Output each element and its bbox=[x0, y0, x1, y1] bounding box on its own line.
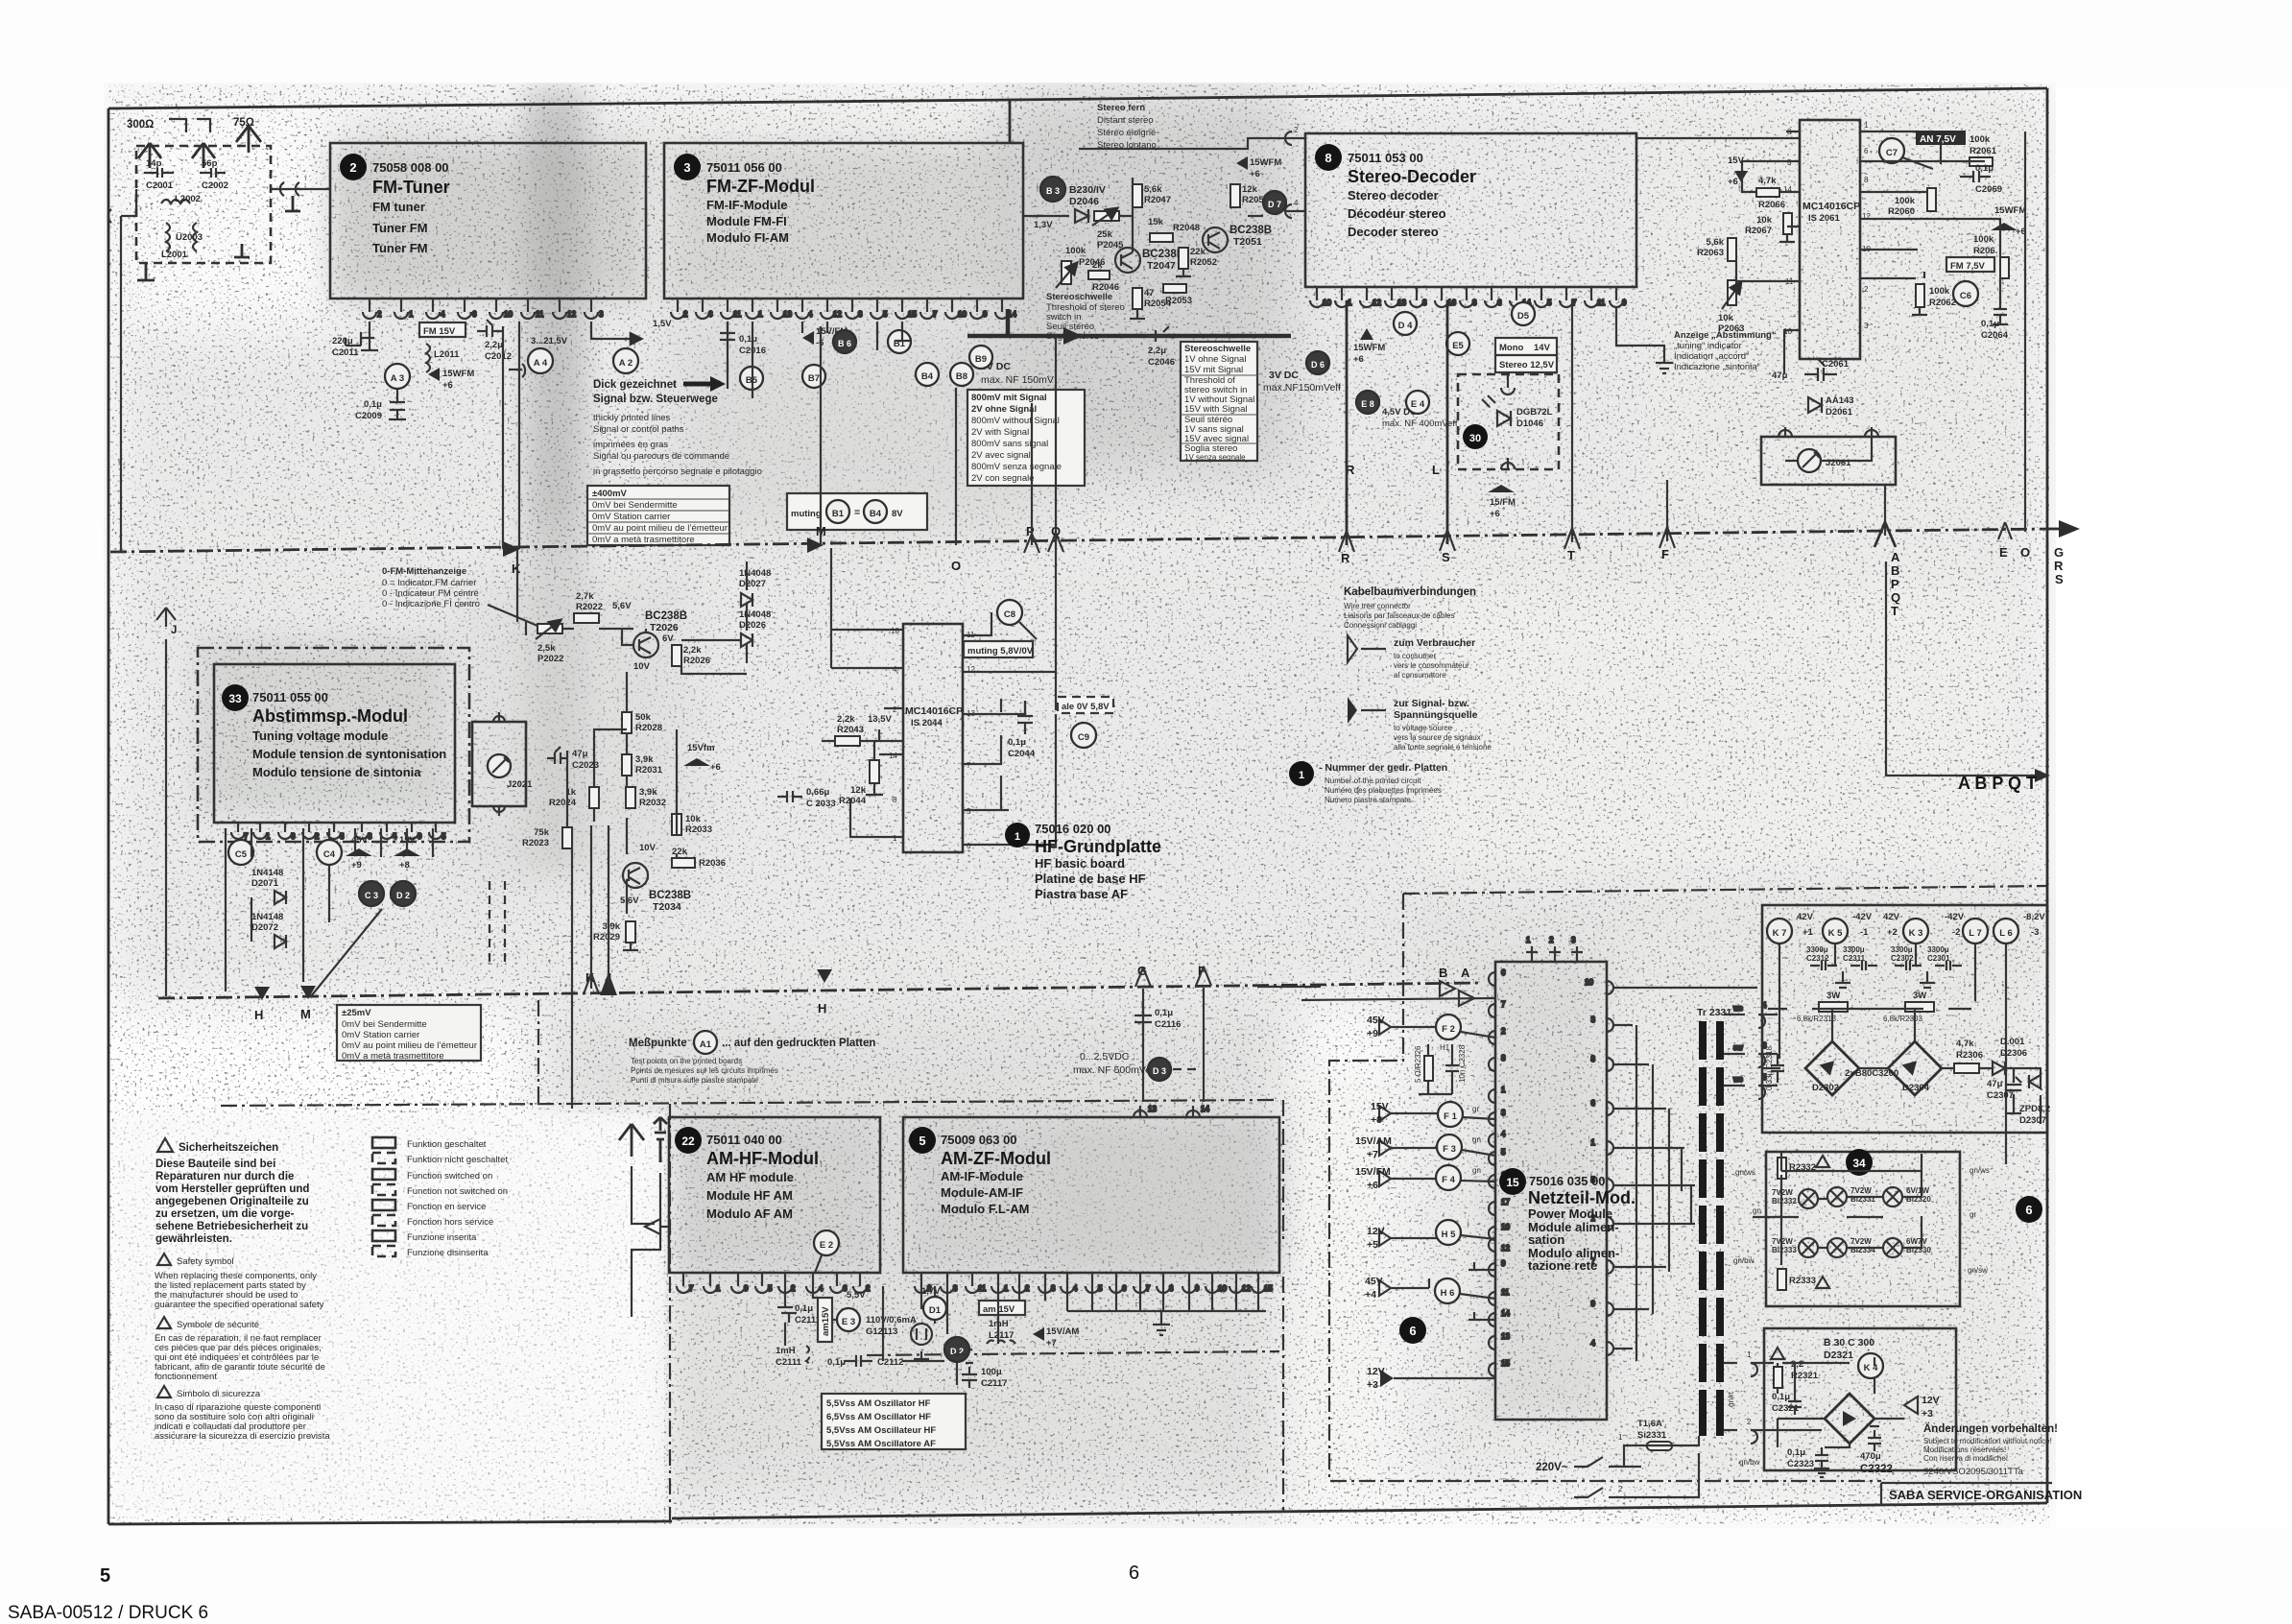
svg-text:J2061: J2061 bbox=[1826, 458, 1851, 468]
svg-text:FM-Tuner: FM-Tuner bbox=[372, 178, 450, 197]
bus1 arrow Q bbox=[1048, 533, 1063, 552]
dash-dot power region left boundary bbox=[1329, 894, 1881, 1481]
svg-text:2: 2 bbox=[1294, 126, 1299, 134]
pin 9 bbox=[1610, 287, 1623, 307]
svg-text:75009 063 00: 75009 063 00 bbox=[941, 1133, 1017, 1147]
legend box dashed 4 bbox=[372, 1246, 395, 1256]
svg-text:6: 6 bbox=[291, 832, 296, 841]
svg-text:R: R bbox=[2054, 559, 2064, 573]
test point D2 am bbox=[944, 1337, 969, 1362]
FM tuner pin row bbox=[363, 299, 604, 319]
svg-text:100k: 100k bbox=[1065, 246, 1086, 256]
resistor R2024 bbox=[549, 787, 599, 808]
legend box solid 2 bbox=[372, 1169, 395, 1180]
wire: IC2 right connections bbox=[963, 612, 1056, 845]
capacitor C2012 electrolytic bbox=[477, 320, 512, 362]
svg-text:3...21,5V: 3...21,5V bbox=[531, 336, 568, 346]
transformer U2003 bbox=[161, 223, 203, 260]
flag 45V +9 bbox=[346, 835, 372, 871]
pin 7 bbox=[1134, 1273, 1147, 1293]
HF Grundplatte label bbox=[1005, 822, 1161, 901]
svg-text:T2026: T2026 bbox=[650, 622, 679, 633]
wire: meter connectors bbox=[1779, 427, 1878, 461]
wire: lamp wiring bbox=[1753, 1152, 1922, 1265]
signal level table box bbox=[967, 390, 1085, 486]
svg-text:H: H bbox=[254, 1008, 263, 1022]
svg-text:2,2μ: 2,2μ bbox=[1148, 346, 1166, 356]
current source D1 circle bbox=[923, 1297, 946, 1320]
svg-text:Test points on the printed boa: Test points on the printed boards bbox=[631, 1057, 742, 1065]
svg-text:7: 7 bbox=[933, 310, 938, 319]
dash-dot power region boundary bbox=[1403, 886, 2047, 894]
svg-text:BC238B: BC238B bbox=[645, 610, 687, 622]
transformer bottom pin 2 bbox=[1724, 1430, 1766, 1444]
wire: ground stubs near pins 9 11 bbox=[1468, 1262, 1495, 1320]
svg-text:al consumatore: al consumatore bbox=[1394, 671, 1446, 680]
svg-text:5,5V: 5,5V bbox=[847, 1290, 866, 1301]
module box AM-HF-Modul bbox=[669, 1117, 880, 1273]
boxed label FM 15V bbox=[419, 322, 466, 337]
pin 4 left side bbox=[1285, 204, 1305, 218]
svg-text:A 2: A 2 bbox=[619, 358, 633, 369]
inductor L2011 bbox=[426, 344, 460, 372]
pin 6 bbox=[696, 299, 709, 319]
svg-text:Indication „accord“: Indication „accord“ bbox=[1674, 351, 1749, 362]
svg-text:5,5V​ss AM Oszillator HF: 5,5V​ss AM Oszillator HF bbox=[826, 1398, 931, 1409]
svg-text:220μ: 220μ bbox=[332, 336, 353, 346]
svg-text:Sicherheitszeichen: Sicherheitszeichen bbox=[179, 1142, 278, 1154]
svg-text:H: H bbox=[818, 1001, 826, 1015]
svg-text:Function not switched on: Function not switched on bbox=[407, 1186, 508, 1197]
bus1 arrow P bbox=[1024, 534, 1039, 553]
svg-text:6: 6 bbox=[1409, 1324, 1416, 1338]
svg-text:0mV au point milieu de l’émett: 0mV au point milieu de l’émetteur bbox=[592, 523, 728, 534]
capacitor C2033 bbox=[777, 787, 836, 809]
svg-text:F 3: F 3 bbox=[1443, 1144, 1456, 1155]
AM antenna 1 bbox=[619, 1124, 644, 1157]
svg-text:9: 9 bbox=[1591, 1300, 1596, 1308]
svg-text:1N4148: 1N4148 bbox=[251, 912, 283, 922]
svg-text:2,7k: 2,7k bbox=[576, 591, 594, 602]
svg-text:5: 5 bbox=[768, 1284, 773, 1293]
pin 2b bbox=[853, 1273, 867, 1293]
test point E3 bbox=[837, 1308, 860, 1331]
svg-text:Q: Q bbox=[1891, 590, 1900, 605]
wire: am zf pins down to dashdot bbox=[921, 1286, 1266, 1334]
pin 1 bbox=[253, 823, 267, 839]
svg-text:+6: +6 bbox=[1250, 169, 1260, 179]
capacitor pair 2 bbox=[1895, 961, 1962, 970]
inductor C2111 dashed bbox=[776, 1346, 809, 1369]
svg-text:H 5: H 5 bbox=[1442, 1230, 1457, 1240]
svg-text:0 - Indicateur FM centre: 0 - Indicateur FM centre bbox=[382, 588, 479, 599]
module box Stereo-Decoder bbox=[1305, 133, 1636, 287]
wire: vertical O bbox=[955, 388, 957, 545]
svg-text:Signal ou parcours de commande: Signal ou parcours de commande bbox=[593, 451, 729, 462]
svg-text:D2071: D2071 bbox=[251, 878, 279, 889]
pin 7 bbox=[1560, 287, 1573, 307]
wire: vertical Q below bus bbox=[1055, 545, 1057, 710]
wire: R2326 C2328 links bbox=[1419, 1044, 1452, 1094]
svg-text:angegebenen Originalteile zu: angegebenen Originalteile zu bbox=[155, 1196, 309, 1207]
svg-text:Fonction en service: Fonction en service bbox=[407, 1202, 486, 1212]
svg-text:Reparaturen nur durch die: Reparaturen nur durch die bbox=[155, 1171, 294, 1182]
svg-text:3,9k: 3,9k bbox=[639, 787, 657, 798]
svg-text:K 4: K 4 bbox=[1864, 1363, 1879, 1373]
svg-text:T2047: T2047 bbox=[1147, 260, 1176, 272]
svg-text:S: S bbox=[1442, 550, 1450, 564]
wire: bridge connections bbox=[1763, 1009, 1971, 1068]
svg-text:ZPD8,2: ZPD8,2 bbox=[2019, 1104, 2050, 1114]
svg-text:gn: gn bbox=[1472, 1135, 1481, 1144]
svg-text:H 6: H 6 bbox=[1441, 1288, 1455, 1299]
dashed label box ale 0V 5,8V bbox=[1058, 697, 1113, 713]
svg-text:sehene Betriebesicherheit zu: sehene Betriebesicherheit zu bbox=[155, 1221, 308, 1232]
module box AM-ZF-Modul bbox=[903, 1117, 1279, 1273]
svg-text:imprimées en gras: imprimées en gras bbox=[593, 440, 668, 450]
boxed label am 15V bbox=[979, 1301, 1025, 1315]
wire: thick signal line with arrow bbox=[967, 334, 1063, 339]
svg-text:thickly printed lines: thickly printed lines bbox=[593, 413, 671, 423]
svg-text:Points de mesures sur les circ: Points de mesures sur les circuits impri… bbox=[631, 1066, 778, 1075]
svg-text:15: 15 bbox=[908, 310, 917, 319]
svg-text:6W7V: 6W7V bbox=[1906, 1237, 1927, 1246]
pin 3b bbox=[1039, 1273, 1052, 1293]
bus1 connector R bbox=[1339, 531, 1354, 552]
pin 10 bbox=[1310, 287, 1324, 307]
svg-text:3,9k: 3,9k bbox=[635, 754, 654, 765]
svg-text:R2062: R2062 bbox=[1929, 298, 1956, 308]
svg-text:-42V: -42V bbox=[1852, 912, 1873, 922]
svg-text:10n C2328: 10n C2328 bbox=[1458, 1044, 1467, 1083]
svg-text:T1,6A: T1,6A bbox=[1637, 1419, 1662, 1429]
svg-text:0mV a metà trasmettitore: 0mV a metà trasmettitore bbox=[592, 535, 695, 545]
svg-text:T: T bbox=[1567, 548, 1575, 562]
svg-text:Funktion nicht geschaltet: Funktion nicht geschaltet bbox=[407, 1155, 508, 1165]
svg-text:C2012: C2012 bbox=[485, 351, 512, 362]
resistor R2066 bbox=[1756, 176, 1785, 210]
svg-text:Funzione disinserita: Funzione disinserita bbox=[407, 1248, 489, 1258]
resistor R2044b bbox=[1088, 260, 1119, 293]
svg-text:6: 6 bbox=[1497, 299, 1502, 307]
svg-text:C5: C5 bbox=[235, 849, 248, 860]
capacitor C2321 bbox=[1772, 1392, 1802, 1415]
svg-text:2,5k: 2,5k bbox=[537, 643, 556, 654]
module number circle 15 bbox=[1499, 1168, 1526, 1195]
svg-text:15V/AM: 15V/AM bbox=[1046, 1326, 1079, 1337]
wire: vertical P bbox=[1031, 403, 1033, 545]
wire: lamp box connectors bbox=[1501, 374, 1515, 469]
warning triangle 1 bbox=[157, 1138, 173, 1152]
pin 6 bbox=[458, 299, 471, 319]
pin 4 bbox=[426, 299, 440, 319]
svg-text:R: R bbox=[1341, 551, 1350, 565]
pin 2 bbox=[915, 1273, 928, 1293]
svg-text:SABA-00512 / DRUCK 6: SABA-00512 / DRUCK 6 bbox=[8, 1603, 208, 1623]
svg-text:5: 5 bbox=[1547, 299, 1552, 307]
pin 5 bbox=[429, 823, 442, 839]
wire: F vertical bbox=[1203, 988, 1205, 1102]
svg-text:16: 16 bbox=[1447, 299, 1456, 307]
pin 8 bbox=[1157, 1273, 1170, 1293]
svg-text:800mV sans signal: 800mV sans signal bbox=[971, 439, 1048, 449]
test point H5 bbox=[1436, 1220, 1461, 1245]
svg-text:2: 2 bbox=[866, 1284, 871, 1293]
module number circle 33 bbox=[222, 684, 249, 711]
transistor T2026 bbox=[633, 610, 687, 657]
pin 13 bbox=[771, 299, 784, 319]
inductor L2002 bbox=[161, 194, 201, 204]
wire: R2043 to IC2 bbox=[822, 729, 903, 741]
svg-text:5: 5 bbox=[883, 310, 888, 319]
label G12113 bbox=[866, 1315, 917, 1337]
lamp Bl2334 bbox=[1827, 1237, 1875, 1257]
svg-text:B9: B9 bbox=[975, 354, 987, 365]
pin 7 bbox=[677, 1273, 690, 1293]
svg-text:„tuning“ indicator: „tuning“ indicator bbox=[1674, 341, 1742, 351]
pin 10 bbox=[945, 299, 959, 319]
connector arrow 15V +8 bbox=[1371, 1101, 1414, 1126]
wire: right chain links bbox=[1979, 1068, 2041, 1164]
svg-text:+6: +6 bbox=[1353, 354, 1364, 365]
resistor R2060 bbox=[1888, 188, 1936, 217]
capacitor C2016 bbox=[720, 322, 766, 372]
pin 1 bbox=[746, 299, 759, 319]
svg-text:Module-AM-IF: Module-AM-IF bbox=[941, 1185, 1023, 1200]
connector symbols on antenna wire bbox=[280, 182, 299, 196]
svg-text:8: 8 bbox=[340, 832, 345, 841]
svg-text:10: 10 bbox=[1501, 1223, 1510, 1231]
wire: outer frame left border bbox=[107, 108, 110, 1524]
svg-text:12: 12 bbox=[1373, 299, 1381, 307]
wire: D7 input bbox=[1248, 211, 1292, 216]
svg-text:15Vfm: 15Vfm bbox=[687, 743, 715, 753]
pin 2 bbox=[778, 1273, 792, 1293]
svg-text:O: O bbox=[951, 559, 961, 573]
svg-text:11: 11 bbox=[1501, 1288, 1510, 1297]
svg-text:0,1μ: 0,1μ bbox=[1787, 1447, 1805, 1458]
text Anzeige Abstimmung bbox=[1674, 330, 1777, 372]
wire: G vertical bbox=[1142, 989, 1144, 1102]
fuse Si2331 bbox=[1641, 1442, 1678, 1450]
resistor R2063 bbox=[1697, 237, 1736, 261]
svg-text:10: 10 bbox=[958, 310, 967, 319]
svg-text:B: B bbox=[1891, 563, 1899, 578]
svg-text:6V: 6V bbox=[662, 633, 674, 644]
svg-text:7V2W: 7V2W bbox=[1772, 1188, 1793, 1197]
svg-text:3: 3 bbox=[1591, 1015, 1596, 1024]
wire: C8 pointer bbox=[1019, 622, 1037, 639]
wire: antenna input arrow bbox=[645, 1219, 670, 1234]
svg-text:13: 13 bbox=[1501, 1332, 1510, 1341]
resistor R2033 bbox=[672, 814, 712, 835]
svg-text:12k: 12k bbox=[850, 785, 867, 796]
svg-text:10: 10 bbox=[1218, 1284, 1227, 1293]
svg-text:1,3V: 1,3V bbox=[1034, 220, 1053, 230]
wire: T2026 connections bbox=[562, 629, 646, 645]
svg-text:Tuner FM: Tuner FM bbox=[372, 241, 428, 255]
svg-text:R2047: R2047 bbox=[1144, 195, 1171, 205]
svg-text:800mV senza segnale: 800mV senza segnale bbox=[971, 462, 1062, 472]
resistor R2303 3W bbox=[1883, 991, 1934, 1023]
warning triangle lamp2 bbox=[1816, 1277, 1829, 1288]
svg-text:FM-ZF-Modul: FM-ZF-Modul bbox=[706, 177, 815, 196]
bus1 connector T bbox=[1564, 528, 1580, 549]
bus2 arrow H bbox=[254, 987, 270, 1000]
svg-text:75011 055 00: 75011 055 00 bbox=[252, 690, 328, 705]
svg-text:C9: C9 bbox=[1078, 732, 1089, 743]
svg-text:G12113: G12113 bbox=[866, 1326, 897, 1337]
svg-text:D 7: D 7 bbox=[1268, 200, 1281, 209]
boxed label muting 5,8V/0V bbox=[964, 641, 1034, 657]
label 42V +1 bbox=[1797, 912, 1814, 938]
svg-text:Modifications réservées!: Modifications réservées! bbox=[1923, 1445, 2006, 1454]
resistor R2061 bbox=[1970, 134, 1997, 166]
resistor R2043 bbox=[835, 714, 864, 746]
svg-text:12V: 12V bbox=[1367, 1366, 1385, 1377]
diode D2072 bbox=[251, 912, 286, 948]
ground under am-zf bbox=[1153, 1311, 1170, 1335]
svg-text:Stereo decoder: Stereo decoder bbox=[1348, 188, 1439, 203]
ground at connector bbox=[285, 196, 300, 211]
module number circle 30 bbox=[1463, 424, 1488, 449]
resistor R2332 bbox=[1778, 1158, 1816, 1179]
legend item Nummer der gedr Platten bbox=[1289, 761, 1447, 804]
dash-dot board boundary bbox=[221, 1100, 1277, 1106]
svg-text:0,1μ: 0,1μ bbox=[739, 334, 757, 345]
svg-text:B 3: B 3 bbox=[1046, 186, 1060, 196]
pin 10 bbox=[489, 299, 503, 319]
ground symbol under antenna box bbox=[137, 263, 155, 280]
boxed label FM 7,5V bbox=[1946, 257, 1994, 272]
svg-text:1: 1 bbox=[1015, 831, 1020, 843]
svg-text:Modulo F.L-AM: Modulo F.L-AM bbox=[941, 1202, 1029, 1216]
capacitor C2009 bbox=[355, 389, 406, 421]
svg-text:15V with Signal: 15V with Signal bbox=[1184, 404, 1247, 415]
svg-text:D2304: D2304 bbox=[1902, 1083, 1930, 1093]
svg-text:+4: +4 bbox=[1365, 1289, 1376, 1301]
pin 2 bbox=[363, 299, 376, 319]
svg-text:9: 9 bbox=[1195, 1284, 1200, 1293]
right pin arcs column bbox=[1585, 978, 1613, 1355]
wire: mains switch path bbox=[1574, 1436, 1699, 1497]
svg-text:100k: 100k bbox=[1895, 196, 1916, 206]
svg-text:AM-ZF-Modul: AM-ZF-Modul bbox=[941, 1149, 1051, 1168]
svg-text:45V: 45V bbox=[1365, 1276, 1383, 1287]
svg-text:+5: +5 bbox=[1367, 1239, 1378, 1251]
svg-text:FM 15V: FM 15V bbox=[423, 326, 456, 337]
test point K5 bbox=[1823, 919, 1848, 943]
pin 9 bbox=[970, 299, 984, 319]
pin 10 bbox=[1206, 1273, 1219, 1293]
svg-text:A1: A1 bbox=[700, 1039, 712, 1050]
wire: vertical M from ZF area bbox=[820, 326, 822, 544]
svg-text:0,1μ: 0,1μ bbox=[1975, 163, 1994, 174]
svg-text:2: 2 bbox=[893, 705, 897, 714]
svg-text:D 3: D 3 bbox=[1153, 1066, 1166, 1076]
svg-text:gn/ws: gn/ws bbox=[1735, 1168, 1755, 1177]
svg-text:R2061: R2061 bbox=[1970, 146, 1997, 156]
lamp Bl2320 bbox=[1883, 1186, 1931, 1206]
diode D2026 bbox=[739, 609, 771, 647]
svg-text:1: 1 bbox=[1526, 936, 1531, 944]
svg-text:A: A bbox=[1461, 966, 1470, 980]
test point E6 bbox=[1356, 391, 1379, 414]
oscillator level box bbox=[822, 1394, 966, 1449]
svg-text:5: 5 bbox=[442, 832, 446, 841]
svg-text:Décodéur stereo: Décodéur stereo bbox=[1348, 206, 1446, 221]
svg-text:R2052: R2052 bbox=[1190, 257, 1217, 268]
mono stereo box bbox=[1495, 338, 1557, 372]
svg-text:E5: E5 bbox=[1452, 341, 1464, 351]
svg-text:14p: 14p bbox=[146, 158, 162, 169]
svg-text:Simbolo di sicurezza: Simbolo di sicurezza bbox=[177, 1389, 261, 1399]
svg-text:C2112: C2112 bbox=[877, 1357, 903, 1368]
svg-text:ws: ws bbox=[1732, 1004, 1743, 1013]
svg-text:muting: muting bbox=[791, 509, 822, 519]
svg-text:13: 13 bbox=[1148, 1105, 1157, 1113]
svg-text:7: 7 bbox=[1146, 1284, 1151, 1293]
svg-text:HF-Grundplatte: HF-Grundplatte bbox=[1035, 837, 1161, 856]
svg-text:R2306: R2306 bbox=[1956, 1050, 1983, 1061]
svg-text:2V con segnale: 2V con segnale bbox=[971, 473, 1035, 484]
svg-text:3W: 3W bbox=[1913, 991, 1926, 1001]
rectifier board box bbox=[1762, 905, 2047, 1133]
svg-text:max. NF 500mVeff: max. NF 500mVeff bbox=[1073, 1064, 1157, 1076]
svg-text:18: 18 bbox=[891, 627, 899, 635]
svg-text:R2060: R2060 bbox=[1888, 206, 1915, 217]
test point A2 bbox=[613, 348, 638, 373]
svg-text:4: 4 bbox=[819, 1284, 824, 1293]
legend box dashed 1 bbox=[372, 1153, 395, 1163]
svg-text:1: 1 bbox=[1864, 121, 1869, 130]
svg-text:R2024: R2024 bbox=[549, 798, 577, 808]
wire: pointer line to P2022 bbox=[488, 605, 549, 631]
svg-text:Mono: Mono bbox=[1499, 343, 1524, 353]
svg-text:9: 9 bbox=[1622, 299, 1627, 307]
J2061 meter box bbox=[1761, 437, 1896, 485]
connector arrow 15V/FM +6 bbox=[1355, 1166, 1414, 1191]
svg-text:15V mit Signal: 15V mit Signal bbox=[1184, 365, 1243, 375]
svg-text:8: 8 bbox=[1591, 1055, 1596, 1063]
svg-text:0 = Indicator FM carrier: 0 = Indicator FM carrier bbox=[382, 578, 476, 588]
svg-text:D2072: D2072 bbox=[251, 922, 278, 933]
pin 15 bbox=[1252, 1273, 1265, 1293]
svg-text:R2032: R2032 bbox=[639, 798, 666, 808]
svg-text:Bl2333: Bl2333 bbox=[1772, 1246, 1797, 1254]
wire: resistor chain verticals bbox=[567, 672, 677, 914]
svg-text:P2022: P2022 bbox=[537, 654, 563, 664]
module number circle 8 bbox=[1315, 144, 1342, 171]
below decoder bbox=[1346, 300, 1673, 545]
svg-text:Si2331: Si2331 bbox=[1637, 1430, 1667, 1441]
test point E5 bbox=[1446, 332, 1469, 355]
svg-text:2: 2 bbox=[791, 1284, 796, 1293]
resistor R2031 bbox=[622, 754, 663, 776]
svg-text:10: 10 bbox=[504, 310, 513, 319]
resistor R2054 bbox=[1130, 288, 1172, 319]
svg-text:22: 22 bbox=[681, 1134, 695, 1148]
inductor L2117 bbox=[987, 1319, 1015, 1344]
svg-text:Module FM-FI: Module FM-FI bbox=[706, 214, 787, 228]
legend box dashed 3 bbox=[372, 1215, 395, 1226]
svg-text:Numero piastre stampate: Numero piastre stampate bbox=[1325, 796, 1411, 804]
text Dick gezeichnet signal paths bbox=[593, 376, 762, 477]
svg-text:0mV Station carrier: 0mV Station carrier bbox=[342, 1030, 419, 1040]
svg-text:Safety symbol: Safety symbol bbox=[177, 1256, 234, 1267]
svg-text:C2116: C2116 bbox=[1155, 1019, 1181, 1030]
svg-text:2: 2 bbox=[315, 832, 320, 841]
